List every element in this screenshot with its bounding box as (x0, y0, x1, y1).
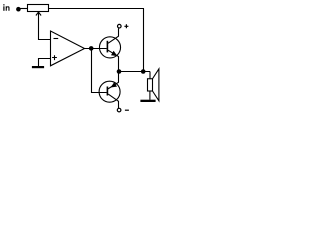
wire input dot to potentiometer (18, 8, 27, 10)
terminal - supply circle (117, 108, 121, 112)
node feedback/output junction dot (141, 69, 146, 74)
transistor Q1 emitter (108, 50, 119, 71)
label in (3, 4, 9, 11)
label + supply (124, 24, 128, 28)
node op-amp output dot (89, 46, 94, 51)
wire feedback vertical down to output rail (143, 9, 145, 72)
wire speaker to ground (149, 91, 151, 100)
wire output rail (emitters junction to speaker) (119, 71, 151, 73)
wire output node down to Q2 base (92, 49, 107, 93)
ground (op-amp + input) (32, 66, 44, 68)
speaker LS1 body (148, 79, 153, 91)
transistor Q2 collector (108, 94, 118, 108)
op-amp U1 triangle (51, 31, 85, 66)
node input terminal dot (16, 7, 21, 12)
wire output rail down to speaker (149, 72, 151, 79)
wire non-inverting input to ground (39, 59, 51, 67)
potentiometer P1 body (28, 5, 49, 12)
speaker LS1 horn (153, 69, 159, 101)
transistor Q1 emitter arrow (111, 51, 118, 56)
terminal + supply circle (118, 24, 122, 28)
potentiometer P1 wiper arrow (36, 12, 41, 15)
ground (speaker) (140, 100, 155, 102)
wire op-amp output to Q1 base (85, 48, 107, 50)
transistor Q2 emitter arrow (111, 82, 118, 87)
transistor Q1 collector (108, 28, 119, 43)
node emitters junction dot (117, 69, 122, 74)
wire wiper to op-amp inverting input (39, 12, 51, 39)
op-amp U1 minus label (54, 38, 59, 40)
transistor Q2 base bar (107, 87, 109, 96)
op-amp U1 plus label (52, 55, 57, 60)
transistor Q2 emitter (108, 72, 119, 89)
transistor Q1 base bar (107, 41, 109, 53)
transistor Q2 circle (99, 81, 120, 102)
transistor Q1 circle (99, 37, 120, 58)
wire top rail: pot right end to feedback corner (49, 8, 145, 10)
label - supply (125, 109, 129, 111)
